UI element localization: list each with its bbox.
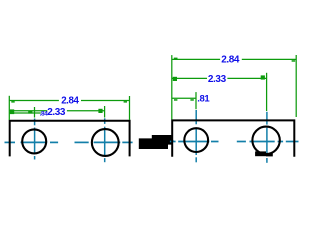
svg-text:2.84: 2.84: [61, 96, 79, 107]
center line vertical hole 1 right: [195, 110, 197, 162]
hole 2 left view: [92, 129, 119, 156]
side view blob: [139, 135, 173, 149]
notch in hole 2, right part: [266, 153, 273, 156]
svg-text:2.33: 2.33: [47, 107, 66, 118]
notch in hole 2: [255, 151, 266, 156]
svg-text:2.84: 2.84: [221, 55, 240, 66]
terminator square left shared, dims 2.33/.84 left view: [10, 109, 14, 114]
hole 2 right view: [252, 127, 279, 154]
center line vertical hole 2 right: [266, 112, 268, 163]
terminator tick left, dim 2.84 left view: [11, 101, 14, 103]
dimension 2.33 right view: [172, 73, 267, 111]
svg-text:.81: .81: [197, 93, 210, 104]
terminator tick left, dim 2.84 right view: [174, 58, 178, 60]
terminator square left, dim 2.33 right view: [173, 77, 177, 81]
center line vertical hole 1 left: [34, 119, 36, 160]
svg-text:2.33: 2.33: [208, 74, 227, 85]
terminator tick right, dim 2.84 left view: [124, 101, 127, 103]
dimension 2.84 left view: [9, 96, 129, 120]
plate outline right view: [172, 120, 294, 156]
terminator square right, dim .84 left view: [28, 111, 32, 114]
plate outline left view: [10, 121, 130, 157]
dimension 2.84 right view: [172, 55, 296, 120]
hole 1 left view: [22, 129, 46, 153]
hole 1 right view: [184, 128, 208, 152]
terminator tick right, dim .81 right view: [190, 99, 193, 101]
center line horizontal left view: [5, 141, 133, 143]
dimension .84 left view: [9, 107, 41, 118]
dimension 2.33 left view: [9, 106, 104, 118]
terminator square right, dim 2.33 left view: [98, 109, 102, 113]
terminator square right, dim 2.33 right view: [261, 75, 265, 79]
dimension .81 right view: [172, 92, 196, 109]
center line stub right of blob: [169, 140, 174, 142]
terminator tick left, dim .81 right view: [174, 99, 177, 101]
terminator tick right, dim 2.84 right view: [292, 60, 296, 62]
svg-text:.84: .84: [40, 110, 49, 117]
center line vertical hole 2 left: [104, 118, 106, 162]
center line horizontal right view: [170, 141, 299, 143]
